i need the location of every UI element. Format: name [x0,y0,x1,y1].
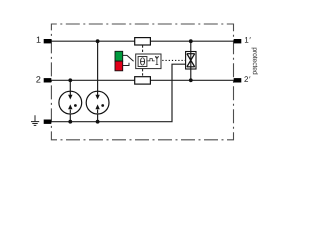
ground symbol [31,115,39,125]
node junction line2 / F1 [68,78,72,82]
theta temperature box [138,57,147,67]
label protected (vertical) [251,48,258,75]
disconnect switch detail [147,56,158,64]
label terminal 2 [36,76,40,82]
terminal 1 [44,39,52,43]
node junction F3 / line2 [189,78,193,82]
gas discharge tube F1 [59,91,82,114]
wire from line2 to GDT F1 [69,80,71,92]
wire from line1 to GDT F2 (crosses line2) [97,41,99,92]
node junction F1 / ground bus [68,120,72,124]
wire F2 to ground bus [97,113,99,121]
dashed linkage U1 to R2 [142,69,144,76]
terminal 2' [234,78,242,82]
wire LED lower lead [123,63,129,66]
node junction F2 / ground bus [96,120,100,124]
dashed linkage R1 to U1 [142,45,144,53]
wire F1 to ground bus [69,113,71,121]
isolating spark gap F3 [186,41,196,80]
wire LED upper lead [123,55,134,61]
terminal ground [44,120,52,124]
gas discharge tube F2 [86,91,109,114]
thermal disconnect monitoring box U1 [136,54,161,69]
node junction line1 / F2 [96,39,100,43]
wire ground bus [46,64,186,122]
terminal 2 [44,78,52,82]
resistor R1 [135,38,151,45]
wire line 2 [46,79,238,81]
wire line 1 [46,40,238,42]
label terminal 1 [37,37,41,43]
terminal 1' [234,39,242,43]
label terminal 2' [244,76,250,82]
node junction F3 / line1 [189,39,193,43]
dotted control link U1 to F3 [162,59,185,61]
label terminal 1' [245,37,251,43]
resistor R2 [135,77,151,84]
status indicator LED (green/red) [115,51,123,70]
device boundary dash-dot box [51,24,233,140]
